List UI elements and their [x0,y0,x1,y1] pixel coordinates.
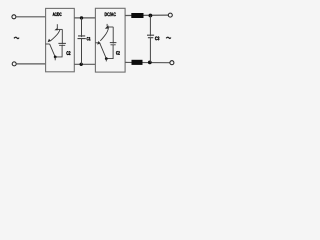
junction dot top mid [80,16,83,19]
U1 emitter diagonal [50,44,56,57]
terminal T3 (top-right output) [168,13,172,17]
label C1 [87,37,91,40]
capacitor C1 bottom lead [81,39,83,65]
capacitor C3 top lead [149,16,151,37]
wire top between boxes [74,17,95,19]
U1 gate lead [46,43,50,45]
AC source tilde mark (left) [14,37,19,38]
U1 switch lever [50,30,60,41]
stub below dot [54,57,56,60]
U2 top node horizontal [107,26,113,28]
U1 lever arrowhead [48,39,51,43]
junction dot bottom right [148,61,152,65]
capacitor C1 plates [78,36,86,39]
capacitor C3 plates [147,35,154,38]
terminal T4 (bottom-right output) [170,61,174,65]
wire bottom between boxes [74,63,95,65]
U2 switch top contact arrow [105,25,109,28]
U1 top node horizontal [57,28,63,30]
converter box U2 DC/AC [95,8,125,72]
wire bottom-right from DC/AC box [125,61,170,63]
label C3 [155,37,159,41]
label AC/DC [53,12,62,16]
wire top-left input to AC/DC box [16,16,46,18]
converter box U1 AC/DC [46,8,75,71]
U2 lever arrowhead [97,41,100,45]
label C2 (left box) [67,51,71,55]
terminal T1 (top-left input) [12,15,16,19]
label C2 (right box) [116,51,120,55]
node dot (left box bottom) [54,56,57,59]
capacitor C2 (left box) plates [58,43,66,45]
U2 gate lead [95,42,99,44]
capacitor C1 top lead [81,18,83,37]
label DC/AC [105,12,116,16]
C2r bottom wire [106,45,113,59]
junction dot top right [149,14,153,18]
junction dot bottom mid [80,63,83,66]
U2 emitter diagonal [100,43,107,59]
AC output tilde mark (right) [166,37,171,38]
inductor L2 (bottom filter bar) [132,60,143,65]
capacitor C3 bottom lead [149,38,151,63]
wire bottom-left input to AC/DC box [16,63,45,65]
terminal T2 (bottom-left input) [12,62,16,66]
capacitor C2 (right box) plates [110,43,117,45]
stub below dot [105,59,107,62]
U2 switch lever [100,28,108,41]
C2 bottom wire [55,45,62,57]
U1 switch top stub [56,24,58,28]
node dot (right box bottom) [105,57,108,60]
U2 vertical to C2 [112,27,114,44]
U1 vertical to C2 [61,29,63,44]
inductor L1 (top filter bar) [131,13,143,18]
U2 switch top stub [106,24,108,27]
U1 switch top contact arrow [54,28,58,31]
wire top-right from DC/AC box [125,14,168,16]
